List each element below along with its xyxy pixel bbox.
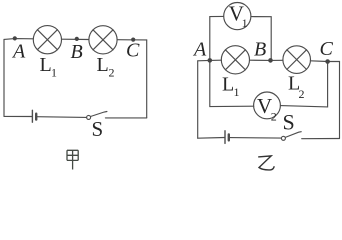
- lamp L1 (left circuit): bulb circle: [33, 26, 61, 54]
- label jia (first figure caption), drawn glyph: [67, 150, 78, 169]
- lamp L1 (right circuit): cross: [225, 50, 245, 70]
- svg-text:L: L: [40, 54, 52, 76]
- svg-text:1: 1: [242, 16, 248, 30]
- voltmeter V2: circle: [254, 92, 281, 119]
- lamp L2 (left circuit): cross: [93, 30, 113, 50]
- battery cell (left circuit): short thick plate: [35, 114, 37, 120]
- node C (left circuit): [131, 38, 135, 42]
- svg-text:C: C: [320, 38, 334, 60]
- svg-text:2: 2: [299, 87, 305, 101]
- wire: left circuit top, L1 to L2: [62, 38, 89, 40]
- wire: right circuit bottom, battery to switch: [229, 137, 281, 140]
- battery cell (right circuit): short thick plate: [228, 134, 230, 140]
- switch S (left circuit): lever: [91, 112, 107, 117]
- lamp L2 (right circuit): bulb circle: [283, 46, 311, 74]
- node B (right circuit): [268, 58, 273, 63]
- wire: left circuit top, L2 to right corner: [117, 39, 147, 41]
- wire: right circuit row, L1 to B: [250, 59, 271, 61]
- node A (left circuit): [13, 36, 17, 40]
- svg-text:1: 1: [234, 85, 240, 99]
- svg-text:A: A: [192, 39, 207, 61]
- label yi (second figure caption), drawn glyph: [258, 156, 274, 170]
- wire: right circuit, C to top right corner and down: [328, 62, 340, 139]
- wire: right circuit bottom, switch to right corner: [302, 138, 340, 140]
- svg-text:S: S: [92, 117, 104, 141]
- wire: left circuit bottom, battery to switch: [36, 116, 86, 119]
- wire: right circuit V2 branch, down from A and right to V2: [210, 60, 254, 106]
- svg-text:1: 1: [51, 66, 57, 80]
- wire: right circuit, A left stub and left side down: [198, 60, 210, 138]
- wire: left circuit left side: [3, 39, 5, 116]
- svg-text:2: 2: [271, 110, 277, 124]
- node C (right circuit): [325, 59, 330, 64]
- wire: left circuit top, A to L1: [4, 38, 33, 41]
- lamp L2 (right circuit): cross: [287, 50, 307, 70]
- svg-text:S: S: [283, 110, 295, 135]
- svg-text:A: A: [11, 41, 26, 63]
- switch S (right circuit): pivot circle: [281, 136, 285, 140]
- svg-text:B: B: [71, 41, 83, 63]
- node A (right circuit): [208, 58, 213, 63]
- wire: left circuit bottom, switch to right corner: [105, 117, 146, 119]
- wire: right circuit row, L2 to C: [310, 60, 327, 63]
- battery cell (left circuit): long plate: [31, 110, 33, 122]
- wire: right circuit bottom, left corner to battery: [198, 137, 225, 140]
- node B (left circuit): [75, 37, 79, 41]
- wire: right circuit V1 branch, left riser A up: [210, 16, 224, 60]
- svg-text:B: B: [254, 39, 266, 61]
- battery cell (right circuit): long plate: [224, 131, 226, 144]
- switch S (right circuit): lever: [285, 132, 301, 138]
- svg-text:2: 2: [109, 66, 115, 80]
- wire: left circuit bottom, left corner to battery: [4, 115, 32, 117]
- wire: right circuit row, A to L1: [210, 59, 222, 61]
- wire: right circuit V1 branch, V1 to corner and down to B: [251, 17, 271, 61]
- voltmeter V1: circle: [224, 3, 251, 30]
- lamp L1 (right circuit): bulb circle: [221, 46, 249, 74]
- lamp L2 (left circuit): bulb circle: [89, 26, 117, 54]
- wire: right circuit row, B to L2: [271, 59, 284, 61]
- svg-text:L: L: [97, 54, 109, 76]
- wire: right circuit V2 branch, V2 to riser up to C: [280, 62, 327, 107]
- svg-text:L: L: [222, 74, 234, 96]
- svg-text:C: C: [126, 40, 140, 62]
- switch S (left circuit): pivot circle: [87, 115, 91, 119]
- lamp L1 (left circuit): cross: [37, 30, 57, 50]
- wire: left circuit right side: [146, 40, 148, 118]
